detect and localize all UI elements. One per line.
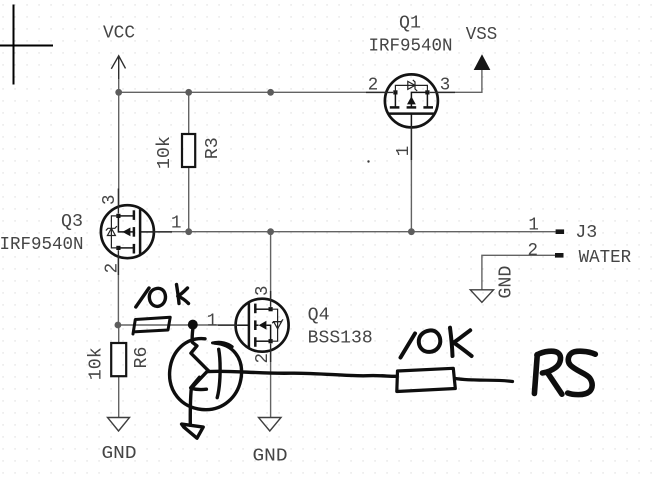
svg-text:1: 1 (528, 215, 539, 235)
wire Q1 pin 1 gate down to gate net rail (410, 126, 412, 232)
svg-text:Q1: Q1 (399, 14, 421, 34)
power flag VSS (475, 55, 490, 69)
svg-text:IRF9540N: IRF9540N (0, 235, 84, 255)
handwritten value 10k (near R6 node) (136, 285, 189, 308)
svg-text:2: 2 (528, 241, 539, 261)
transistor Q3 (P-MOSFET IRF9540N, gate at right) (101, 189, 172, 276)
svg-text:1: 1 (171, 214, 182, 234)
transistor Q1 (P-MOSFET IRF9540N, rotated, gate down) (366, 74, 455, 160)
handwritten label RS (534, 351, 595, 394)
wire gate net rail Q3 pin 1 to J3 pin 1 (154, 231, 556, 233)
svg-text:3: 3 (440, 76, 451, 96)
wire VCC flag stem to top rail (118, 79, 120, 92)
svg-text:10k: 10k (155, 136, 175, 169)
junction R3 bottom / gate rail (185, 228, 192, 235)
svg-text:Q3: Q3 (61, 212, 83, 232)
hand-drawn resistor box (base resistor) with lead (397, 368, 513, 391)
wire VCC rail down to Q3 pin 3 (118, 92, 120, 205)
svg-text:VCC: VCC (103, 24, 135, 44)
svg-text:2: 2 (253, 353, 273, 364)
wire top rail VCC net to Q1 pin 2 (119, 91, 385, 93)
hand-drawn ground triangle (BJT emitter) (182, 424, 204, 438)
svg-text:GND: GND (253, 447, 288, 467)
junction Q1 gate / gate rail (408, 228, 415, 235)
svg-text:3: 3 (253, 285, 273, 296)
svg-text:R6: R6 (132, 347, 152, 369)
connector J3 pin 2 pad (555, 253, 564, 258)
resistor R6 (111, 343, 126, 376)
wire J3 pin 2 to ground (482, 255, 556, 289)
hand-drawn junction dot (BJT collector node) (188, 320, 198, 330)
hand-drawn transistor sketch (BJT) (170, 328, 397, 425)
svg-text:GND: GND (496, 266, 516, 299)
svg-text:R3: R3 (203, 137, 223, 159)
junction R3 top / top rail (185, 89, 192, 96)
svg-text:2: 2 (102, 263, 122, 274)
ground symbol at J3 pin 2 (470, 290, 493, 303)
svg-text:WATER: WATER (579, 248, 632, 268)
junction top rail x=270 (267, 89, 274, 96)
sheet origin cross mark (0, 5, 53, 85)
svg-text:1: 1 (394, 146, 414, 157)
wire Q4 pin 2 to ground (270, 352, 272, 417)
svg-text:GND: GND (102, 444, 137, 464)
junction Q4 pin 3 / gate rail (267, 228, 274, 235)
svg-text:VSS: VSS (466, 25, 498, 45)
power flag VCC (111, 56, 125, 79)
wire node to R6 top (118, 325, 120, 343)
junction Q3 pin 2 / R6 node (115, 322, 122, 329)
wire gate net rail down to Q4 pin 3 (270, 232, 272, 300)
pen speck (367, 160, 369, 162)
svg-text:IRF9540N: IRF9540N (369, 37, 453, 57)
handwritten value 10K (base resistor) (401, 328, 472, 358)
wire R3 bottom to gate net (188, 167, 190, 232)
hand-drawn resistor box (over Q3-Q4 wire) (133, 317, 170, 334)
ground symbol below R6 (108, 418, 130, 432)
svg-text:10k: 10k (87, 347, 107, 380)
wire VCC rail to R3 top (188, 92, 190, 134)
junction VCC flag / top rail (115, 89, 122, 96)
resistor R3 (182, 134, 195, 167)
connector J3 pin 1 pad (556, 229, 565, 234)
svg-text:1: 1 (207, 312, 218, 332)
svg-text:Q4: Q4 (308, 306, 330, 326)
transistor Q4 (N-MOSFET BSS138, gate at left) (218, 291, 289, 362)
svg-text:J3: J3 (575, 223, 597, 243)
wire Q1 pin 3 to VSS flag (437, 70, 482, 93)
svg-text:3: 3 (100, 195, 120, 206)
ground symbol below Q4 (259, 418, 282, 432)
wire R6 bottom to ground (118, 376, 120, 417)
svg-text:BSS138: BSS138 (308, 329, 373, 349)
wire Q3 pin 2 down and right to Q4 pin 1 (118, 258, 236, 325)
svg-text:2: 2 (368, 76, 379, 96)
